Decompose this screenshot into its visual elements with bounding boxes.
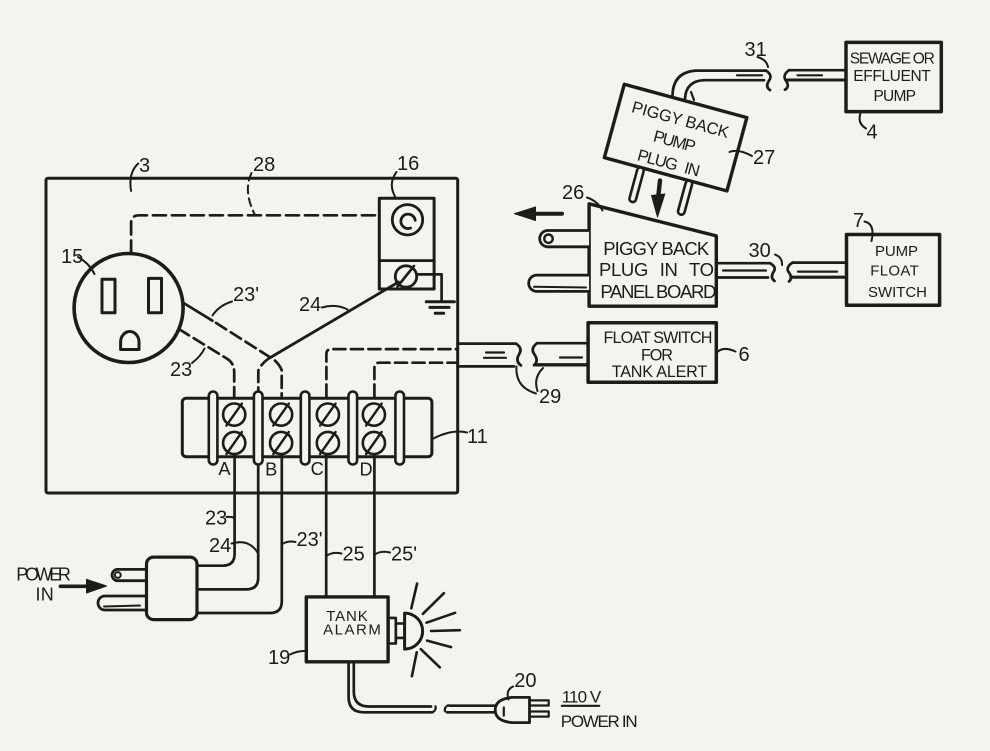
svg-text:PANEL BOARD: PANEL BOARD: [600, 281, 716, 302]
svg-text:30: 30: [749, 240, 771, 262]
cable 30 conductor marks: [723, 269, 766, 271]
label 29: [516, 367, 536, 394]
label 25: [327, 553, 342, 556]
terminal posts: [209, 392, 404, 465]
label 27: [730, 151, 753, 156]
svg-text:ALARM: ALARM: [323, 622, 381, 639]
terminal screws A: [223, 404, 385, 455]
svg-text:26: 26: [562, 182, 584, 204]
label 19: [290, 651, 306, 655]
svg-text:POWER IN: POWER IN: [561, 712, 638, 731]
cable 29 sheath: [458, 344, 522, 366]
plug 20: [495, 697, 529, 722]
wire 24 branch to post B-left (dashed): [258, 358, 270, 393]
svg-text:FLOAT SWITCH: FLOAT SWITCH: [604, 329, 713, 347]
label 3: [130, 164, 138, 192]
wire 24 solid screw to Y vertex: [270, 282, 398, 358]
receptacle right slot: [149, 278, 162, 312]
ground wire from screw: [417, 274, 442, 301]
down arrow: [658, 181, 660, 197]
label 25': [376, 552, 391, 554]
svg-text:FLOAT: FLOAT: [870, 262, 919, 279]
svg-text:110 V: 110 V: [562, 688, 602, 707]
svg-text:C: C: [311, 459, 324, 479]
svg-text:19: 19: [268, 647, 290, 669]
svg-text:23': 23': [233, 284, 259, 306]
svg-text:D: D: [360, 460, 373, 480]
label 24 bottom: [232, 542, 258, 552]
svg-text:PUMP: PUMP: [875, 243, 918, 260]
piggy back pump plug in box 27: [595, 84, 747, 225]
svg-text:PUMP: PUMP: [873, 88, 916, 105]
svg-text:B: B: [265, 460, 277, 480]
label 23 bottom: [227, 517, 235, 518]
left arrow: [534, 212, 562, 216]
power plug body: [147, 557, 198, 620]
box 26 bottom prong: [529, 275, 589, 291]
terminal strip 11: [182, 398, 432, 457]
svg-text:24: 24: [209, 535, 231, 557]
svg-text:29: 29: [539, 386, 561, 408]
wire 23' dashed receptacle to vertex to terminal B: [183, 303, 213, 321]
plug 20 prongs: [530, 700, 549, 705]
label 23' bottom: [283, 542, 296, 544]
svg-text:28: 28: [253, 154, 275, 176]
panel board box 3: [46, 178, 458, 493]
svg-text:A: A: [218, 459, 231, 479]
svg-text:6: 6: [739, 344, 750, 366]
svg-text:IN: IN: [36, 584, 54, 604]
box 16 screw terminal: [395, 266, 416, 287]
plug bottom prong: [98, 596, 147, 610]
label 31: [758, 57, 769, 67]
power in arrow: [60, 584, 88, 588]
svg-text:SWITCH: SWITCH: [868, 284, 927, 301]
svg-text:25': 25': [391, 544, 417, 566]
box 26 top prong: [540, 231, 589, 247]
receptacle ground hole: [121, 332, 139, 350]
svg-text:25: 25: [343, 544, 365, 566]
svg-text:4: 4: [867, 122, 878, 144]
svg-text:PIGGY BACK: PIGGY BACK: [603, 238, 710, 259]
wire 25' dashed terminal D to cable 29: [374, 363, 457, 397]
svg-text:FOR: FOR: [641, 347, 673, 365]
terminal letters: [218, 459, 372, 480]
wire 24 below strip: [196, 462, 258, 589]
box 27 prongs: [629, 167, 645, 203]
label 23' upper: [213, 302, 233, 316]
label 23 left: [192, 349, 205, 364]
svg-text:TANK ALERT: TANK ALERT: [612, 363, 708, 381]
svg-text:PLUG IN TO: PLUG IN TO: [599, 259, 714, 280]
svg-text:15: 15: [61, 246, 83, 268]
label 26: [587, 198, 603, 211]
sewage or effluent pump box 4: [846, 42, 941, 111]
wires below strip: A(23): [196, 445, 235, 566]
svg-text:EFFLUENT: EFFLUENT: [853, 68, 931, 85]
wire 25' below strip to tank alarm: [373, 445, 376, 597]
svg-text:23: 23: [205, 508, 227, 530]
svg-text:11: 11: [467, 426, 488, 448]
wire 28 dashed run receptacle to box 16: [131, 215, 379, 253]
receptacle left slot: [102, 279, 115, 313]
wire 23' below strip: [196, 445, 282, 613]
cable 31: [673, 71, 767, 96]
screw slots: [226, 404, 381, 454]
receptacle 15: [74, 254, 183, 363]
wire 25 below strip to tank alarm: [325, 445, 328, 597]
ground symbol: [426, 300, 454, 303]
box 16 indicator circle: [392, 205, 422, 235]
wire 25 dashed terminal C to cable 29: [326, 349, 457, 396]
relay box 16: [379, 198, 434, 289]
svg-text:3: 3: [139, 155, 150, 177]
svg-text:27: 27: [753, 147, 775, 169]
alarm lamp: [388, 618, 395, 644]
wire 23 dashed receptacle to terminal A: [179, 329, 234, 397]
cable 29 conductor marks: [484, 357, 506, 359]
svg-text:23: 23: [170, 359, 192, 381]
svg-text:31: 31: [745, 39, 767, 61]
svg-text:POWER: POWER: [16, 565, 71, 585]
label 4: [860, 112, 866, 129]
label 15: [78, 257, 95, 274]
svg-text:16: 16: [397, 153, 419, 175]
cable 31 conductor marks: [737, 74, 762, 76]
label 16: [392, 172, 397, 198]
110V POWER IN text: [561, 688, 638, 732]
label 28: [248, 173, 255, 214]
svg-text:24: 24: [299, 294, 321, 316]
lamp rays: [411, 584, 460, 677]
pump float switch box 7: [847, 235, 940, 306]
cable 30: [716, 263, 774, 281]
label 20: [508, 687, 513, 700]
label 6: [716, 349, 736, 354]
label 30: [775, 255, 782, 266]
svg-text:20: 20: [514, 670, 536, 692]
float switch for tank alert box 6: [588, 323, 716, 383]
cord break: [433, 706, 436, 712]
svg-text:23': 23': [297, 529, 323, 551]
label 11: [434, 432, 468, 439]
svg-text:7: 7: [853, 210, 864, 232]
cord from tank alarm: [349, 662, 433, 713]
cord right segment: [450, 704, 496, 707]
svg-text:SEWAGE OR: SEWAGE OR: [850, 50, 935, 67]
piggy back plug in to panel board box 26: [589, 204, 716, 306]
POWER IN text: [16, 565, 71, 605]
label 7: [865, 222, 873, 242]
tank alarm box 19: [306, 597, 388, 662]
label 24 upper: [322, 306, 348, 310]
plug top prong: [112, 569, 146, 580]
